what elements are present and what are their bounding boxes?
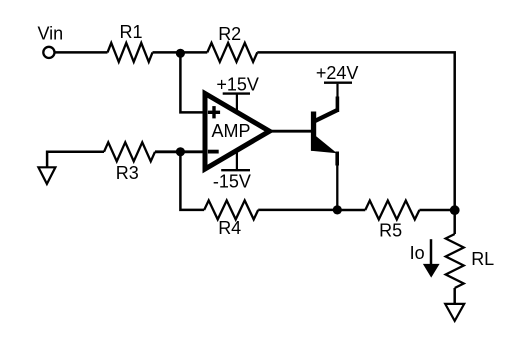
wire Vin to R1 bbox=[55, 51, 108, 54]
wire R1 to R2 bbox=[153, 51, 208, 54]
wire ground to R3 bbox=[47, 152, 104, 168]
wire node D to RL bbox=[453, 210, 456, 234]
wire op-amp bottom to -15V bar bbox=[236, 152, 238, 171]
supply +24V bar bbox=[324, 81, 352, 83]
resistor RL bbox=[446, 234, 464, 288]
svg-text:R3: R3 bbox=[116, 163, 139, 183]
op-amp U1 bbox=[205, 94, 270, 170]
op-amp minus pin mark bbox=[208, 150, 219, 154]
wire R2 to right side down to node D bbox=[257, 52, 454, 210]
supply +15V bar bbox=[223, 92, 250, 94]
supply -15V bar bbox=[221, 169, 250, 171]
wire node C to R5 bbox=[337, 209, 365, 212]
current arrow Io bbox=[423, 239, 440, 277]
resistor R1 bbox=[108, 43, 153, 62]
svg-text:-15V: -15V bbox=[213, 172, 251, 192]
wire transistor collector to +24V bar bbox=[336, 84, 338, 97]
svg-text:RL: RL bbox=[471, 249, 494, 269]
node D junction dot bbox=[450, 205, 460, 215]
svg-text:R5: R5 bbox=[379, 220, 402, 240]
transistor Q1 bbox=[311, 97, 338, 166]
svg-text:+24V: +24V bbox=[316, 63, 359, 83]
wire op-amp output to transistor base bbox=[270, 130, 313, 133]
op-amp plus pin mark bbox=[208, 106, 220, 118]
resistor R2 bbox=[207, 43, 257, 62]
svg-text:R4: R4 bbox=[218, 218, 241, 238]
node B junction dot bbox=[176, 147, 185, 156]
resistor R3 bbox=[104, 142, 155, 161]
ground right bbox=[445, 304, 464, 321]
ground left bbox=[38, 167, 55, 184]
wire R4 to node C bbox=[258, 209, 337, 212]
wire node A to op-amp plus input bbox=[180, 53, 204, 113]
wire transistor emitter down to node C bbox=[336, 165, 338, 210]
wire +15V bar to op-amp top bbox=[236, 94, 238, 112]
svg-text:R2: R2 bbox=[218, 24, 241, 44]
svg-text:+15V: +15V bbox=[216, 74, 259, 94]
wire RL to ground right bbox=[453, 288, 456, 304]
svg-text:Io: Io bbox=[410, 243, 425, 263]
resistor R5 bbox=[365, 201, 419, 220]
node A junction dot bbox=[176, 49, 185, 58]
wire R3 to op-amp minus input bbox=[155, 150, 204, 153]
svg-text:Vin: Vin bbox=[38, 23, 64, 43]
wire R5 to node D bbox=[419, 209, 454, 212]
svg-text:R1: R1 bbox=[120, 22, 143, 42]
svg-text:AMP: AMP bbox=[212, 121, 251, 141]
wire node B down to R4 bbox=[180, 152, 204, 210]
node C junction dot bbox=[333, 205, 342, 214]
input terminal Vin bbox=[43, 47, 54, 58]
resistor R4 bbox=[204, 200, 258, 219]
